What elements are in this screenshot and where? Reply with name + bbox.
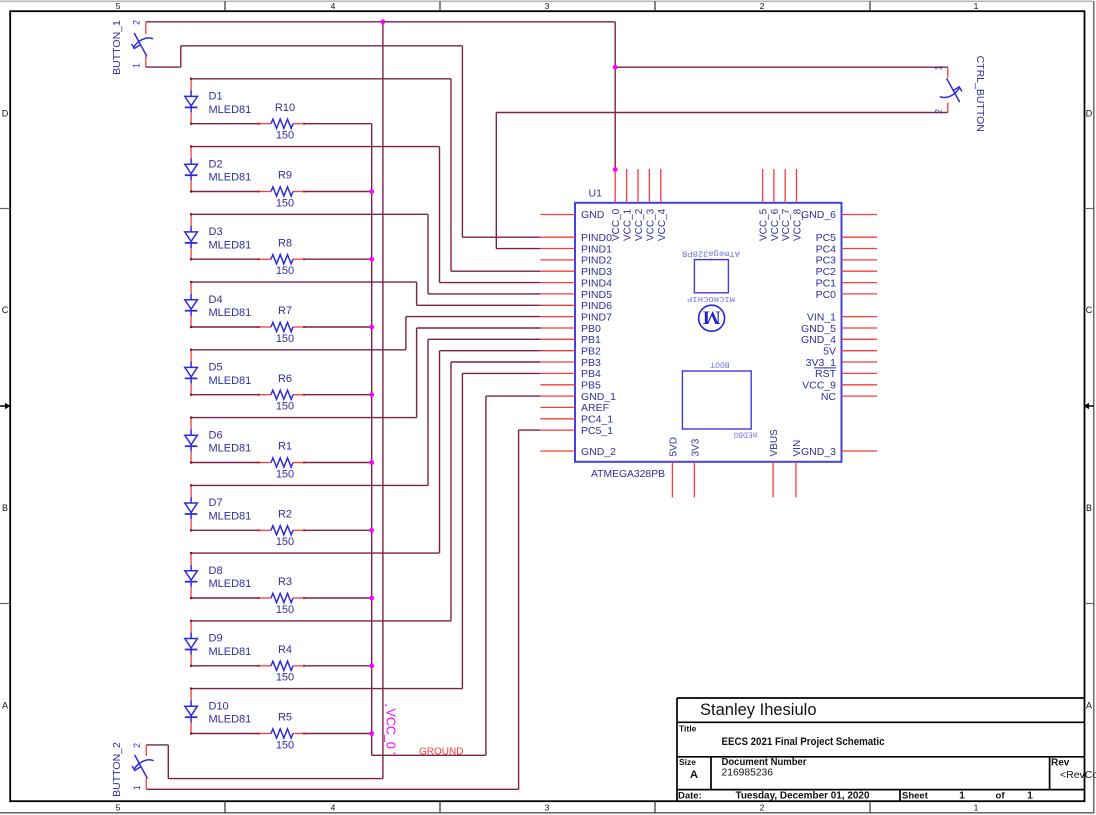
svg-text:1: 1: [1027, 791, 1033, 802]
pin VCC_4 stub (top): [660, 169, 662, 203]
svg-text:MLED81: MLED81: [209, 646, 252, 658]
junction dot ground bus row D2: [369, 189, 374, 194]
wire VCC top rail from BUTTON_1 pin2: [146, 21, 615, 23]
zone tick top x=225: [224, 1, 226, 11]
svg-text:A: A: [690, 769, 698, 781]
diode D5 (MLED81): [185, 350, 198, 394]
svg-text:VCC_9: VCC_9: [802, 380, 836, 392]
switch CTRL_BUTTON: [940, 67, 961, 112]
wire D3 channel vertical: [427, 214, 429, 294]
wire D7 cathode to resistor: [191, 529, 259, 531]
RST overline: [814, 367, 836, 369]
svg-text:R10: R10: [275, 102, 295, 114]
svg-text:2: 2: [132, 20, 142, 25]
junction dot ground bus row D9: [369, 663, 374, 668]
wire into PIND1 pin: [496, 248, 540, 250]
svg-text:BUTTON_1: BUTTON_1: [111, 20, 123, 75]
svg-text:VCC_8: VCC_8: [793, 208, 804, 241]
wire D7 into pin: [428, 338, 540, 340]
wire corner vertex dots row 5: [190, 349, 192, 351]
sheet outer border line top: [0, 0, 1094, 2]
svg-text:mEDBG: mEDBG: [733, 430, 757, 439]
svg-text:GROUND: GROUND: [419, 746, 463, 757]
wire LED D2 anode stub vertical: [190, 146, 192, 149]
svg-text:A: A: [2, 701, 8, 711]
svg-text:U1: U1: [589, 188, 603, 200]
svg-text:of: of: [996, 791, 1006, 802]
svg-text:PIND5: PIND5: [581, 289, 612, 301]
svg-text:PC2: PC2: [816, 266, 837, 278]
wire corner vertex dots row 3: [190, 213, 192, 215]
zone tick right y=208.5: [1085, 208, 1094, 210]
svg-text:AREF: AREF: [581, 402, 609, 414]
svg-text:2: 2: [760, 1, 765, 11]
pin PIND3 stub: [540, 270, 575, 272]
resistor R8 (150): [258, 255, 306, 264]
wire channel drop to PIND0: [461, 46, 463, 237]
zone tick bottom x=655: [654, 801, 656, 813]
pin PB0 stub: [540, 327, 575, 329]
svg-text:VCC_0: VCC_0: [384, 709, 398, 749]
resistor R4 (150): [258, 661, 306, 670]
wire D2 anode rail: [191, 146, 439, 148]
svg-text:D: D: [2, 109, 9, 119]
zone tick bottom x=225: [224, 801, 226, 813]
pin PIND0 stub: [540, 236, 575, 238]
wire D6 channel vertical: [416, 328, 418, 418]
svg-text:BOOT: BOOT: [710, 359, 729, 368]
zone tick top x=870: [869, 1, 871, 11]
svg-text:BUTTON_2: BUTTON_2: [111, 742, 123, 797]
pin PC2 stub: [842, 270, 878, 272]
svg-text:MLED81: MLED81: [209, 511, 252, 523]
resistor R2 (150): [258, 526, 306, 535]
diode D10 (MLED81): [185, 689, 198, 733]
chip inner square (die): [694, 260, 728, 293]
svg-text:VCC_5: VCC_5: [759, 208, 770, 241]
svg-text:1: 1: [132, 63, 142, 68]
svg-text:GND_5: GND_5: [801, 323, 836, 335]
svg-text:5VD: 5VD: [668, 437, 679, 456]
zone tick left y=208.5: [0, 208, 10, 210]
svg-text:PC5: PC5: [816, 232, 837, 244]
svg-text:VCC_4: VCC_4: [657, 208, 668, 241]
svg-text:GND_2: GND_2: [581, 446, 616, 458]
wire LED D5 anode stub vertical: [190, 349, 192, 352]
pin PIND5 stub: [540, 293, 575, 295]
wire D4 into pin: [417, 304, 541, 306]
pin VCC_7 stub (top): [784, 169, 786, 203]
svg-text:PB3: PB3: [581, 357, 601, 369]
wire LED D4 anode stub vertical: [190, 281, 192, 284]
wire D9 cathode to resistor: [191, 665, 259, 667]
svg-text:RST: RST: [815, 368, 837, 380]
wire VCC bus bottom horizontal: [168, 778, 383, 780]
svg-text:D1: D1: [209, 91, 223, 103]
wire resistor row 1 to ground bus: [304, 123, 372, 125]
wire D8 into pin: [440, 350, 541, 352]
svg-text:Title: Title: [679, 724, 697, 734]
resistor R3 (150): [258, 593, 306, 602]
svg-text:VIN: VIN: [792, 440, 803, 457]
wire D3 cathode to resistor: [191, 258, 259, 260]
wire D4 anode rail: [191, 281, 417, 283]
svg-text:MICROCHIP: MICROCHIP: [686, 294, 735, 302]
wire BUTTON_1 pin1 riser: [180, 46, 182, 67]
svg-text:R4: R4: [278, 644, 292, 656]
svg-text:B: B: [1086, 503, 1092, 513]
svg-text:D4: D4: [209, 294, 223, 306]
sheet outer border line bottom: [0, 812, 1094, 814]
pin VCC_2 stub (top): [637, 169, 639, 203]
svg-text:GND_6: GND_6: [801, 209, 836, 221]
wire resistor row 7 to ground bus: [304, 529, 372, 531]
wire resistor row 3 to ground bus: [304, 258, 372, 260]
pin PIND1 stub: [540, 248, 575, 250]
svg-text:PIND3: PIND3: [581, 266, 612, 278]
pin PIND4 stub: [540, 282, 575, 284]
wire BUTTON_1 pin1 to channel: [181, 45, 463, 47]
wire D5 into pin: [406, 316, 541, 318]
pin PB4 stub: [540, 372, 575, 374]
pin VIN stub (bottom): [795, 462, 797, 498]
svg-text:MLED81: MLED81: [209, 307, 252, 319]
svg-text:CTRL_BUTTON: CTRL_BUTTON: [974, 56, 986, 132]
svg-text:150: 150: [276, 333, 294, 345]
wire D2 channel vertical: [439, 147, 441, 283]
svg-text:C: C: [1086, 305, 1093, 315]
svg-text:GND: GND: [581, 209, 605, 221]
svg-text:150: 150: [276, 604, 294, 616]
wire D6 anode rail: [191, 417, 417, 419]
wire GROUND riser to GND_1: [485, 396, 487, 755]
svg-text:PC0: PC0: [816, 289, 837, 301]
pin 5V stub: [842, 350, 878, 352]
pin NC stub: [842, 395, 878, 397]
wire D10 channel vertical: [461, 373, 463, 688]
svg-text:216985236: 216985236: [722, 768, 774, 779]
wire BUTTON_1 pin1 bottom segment: [146, 66, 181, 68]
svg-text:2: 2: [760, 802, 765, 812]
svg-text:PB2: PB2: [581, 346, 601, 358]
svg-text:PB0: PB0: [581, 323, 601, 335]
svg-text:R9: R9: [278, 170, 292, 182]
zone tick top x=440: [439, 1, 441, 11]
svg-text:1: 1: [959, 791, 965, 802]
svg-text:VCC_7: VCC_7: [781, 208, 792, 241]
svg-text:MLED81: MLED81: [209, 375, 252, 387]
svg-text:150: 150: [276, 739, 294, 751]
svg-text:2: 2: [934, 109, 944, 114]
svg-text:ATmega328PB: ATmega328PB: [682, 249, 740, 258]
svg-text:D6: D6: [209, 429, 223, 441]
wire corner vertex dots row 8: [190, 552, 192, 554]
pin PB1 stub: [540, 338, 575, 340]
svg-text:D5: D5: [209, 362, 223, 374]
zone tick top x=655: [654, 1, 656, 11]
svg-text:B: B: [2, 503, 8, 513]
resistor R5 (150): [258, 729, 306, 738]
wire D9 anode rail: [191, 620, 451, 622]
svg-text:PIND2: PIND2: [581, 255, 612, 267]
wire resistor row 5 to ground bus: [304, 394, 372, 396]
switch BUTTON_2: [132, 745, 153, 789]
wire D1 channel vertical: [450, 79, 452, 271]
svg-text:1: 1: [132, 785, 142, 790]
zone tick bottom x=870: [869, 801, 871, 813]
junction dot VCC_0 pin connection: [613, 167, 618, 172]
svg-text:MLED81: MLED81: [209, 443, 252, 455]
svg-text:4: 4: [331, 1, 336, 11]
svg-text:D3: D3: [209, 226, 223, 238]
wire D8 cathode to resistor: [191, 597, 259, 599]
svg-text:EECS 2021 Final Project Schema: EECS 2021 Final Project Schematic: [722, 736, 885, 748]
wire VCC bus vertical: [382, 22, 384, 779]
pin PC0 stub: [842, 293, 878, 295]
resistor R10 (150): [258, 119, 306, 128]
wire D3 anode rail: [191, 213, 428, 215]
pin PC1 stub: [842, 282, 878, 284]
svg-text:D8: D8: [209, 565, 223, 577]
wire D4 channel vertical: [416, 282, 418, 305]
wire channel drop to PIND1: [495, 113, 497, 249]
wire D9 channel vertical: [450, 362, 452, 621]
pin VCC_1 stub (top): [626, 169, 628, 203]
pin 3V3_1 stub: [842, 361, 878, 363]
wire resistor row 2 to ground bus: [304, 191, 372, 193]
junction dot VCC bus top: [381, 19, 386, 24]
switch BUTTON_1: [132, 22, 153, 67]
svg-text:VIN_1: VIN_1: [807, 311, 836, 323]
pin VCC_5 stub (top): [762, 169, 764, 203]
svg-text:R5: R5: [278, 712, 292, 724]
svg-text:3V3_1: 3V3_1: [806, 357, 837, 369]
wire D10 cathode to resistor: [191, 733, 259, 735]
wire corner vertex dots row 4: [190, 281, 192, 283]
svg-text:D7: D7: [209, 497, 223, 509]
svg-text:D2: D2: [209, 158, 223, 170]
pin PIND2 stub: [540, 259, 575, 261]
wire corner vertex dots row 6: [190, 417, 192, 419]
wire VCC branch to CTRL_BUTTON pin1: [615, 66, 948, 68]
svg-text:5: 5: [116, 1, 121, 11]
wire VCC riser to BUTTON_2 pin2: [167, 745, 169, 779]
resistor R9 (150): [258, 187, 306, 196]
svg-text:R2: R2: [278, 509, 292, 521]
svg-text:D9: D9: [209, 633, 223, 645]
diode D9 (MLED81): [185, 622, 198, 666]
wire D2 into pin: [440, 282, 541, 284]
junction dot ground bus row D3: [369, 257, 374, 262]
pin PC4_1 stub: [540, 418, 575, 420]
wire LED D6 anode stub vertical: [190, 417, 192, 420]
wire corner vertex dots row 7: [190, 484, 192, 486]
junction dot ground bus row D6: [369, 460, 374, 465]
svg-text:GND_1: GND_1: [581, 391, 616, 403]
svg-text:Date:: Date:: [678, 791, 702, 802]
junction dot VCC branch to CTRL_BUTTON: [613, 65, 618, 70]
svg-text:150: 150: [276, 197, 294, 209]
microchip logo circle: [699, 305, 725, 331]
wire D5 channel vertical: [405, 317, 407, 350]
wire LED D10 anode stub vertical: [190, 688, 192, 691]
wire D6 into pin: [417, 327, 541, 329]
svg-text:GND_3: GND_3: [801, 446, 836, 458]
wire resistor row 9 to ground bus: [304, 665, 372, 667]
svg-text:150: 150: [276, 672, 294, 684]
svg-text:VCC_3: VCC_3: [645, 208, 656, 241]
svg-text:D: D: [1086, 109, 1093, 119]
wire corner vertex dots row 2: [190, 146, 192, 148]
pin PC4 stub: [842, 248, 878, 250]
wire resistor row 6 to ground bus: [304, 462, 372, 464]
wire D7 channel vertical: [427, 339, 429, 485]
svg-text:VCC_2: VCC_2: [634, 208, 645, 241]
wire resistor row 4 to ground bus: [304, 326, 372, 328]
diode D2 (MLED81): [185, 147, 198, 191]
svg-text:PB5: PB5: [581, 380, 601, 392]
svg-text:Tuesday, December 01, 2020: Tuesday, December 01, 2020: [736, 790, 870, 801]
svg-text:PC3: PC3: [816, 255, 837, 267]
pin PIND6 stub: [540, 304, 575, 306]
center arrow right: [1084, 403, 1094, 409]
diode D3 (MLED81): [185, 215, 198, 259]
svg-text:VBUS: VBUS: [769, 429, 780, 457]
pin VIN_1 stub: [842, 316, 878, 318]
pin PC5 stub: [842, 236, 878, 238]
wire corner vertex dots row 1: [190, 78, 192, 80]
svg-text:VCC_1: VCC_1: [623, 208, 634, 241]
zone tick right y=603.5: [1085, 603, 1094, 605]
svg-text:M: M: [703, 307, 721, 328]
diode D1 (MLED81): [185, 79, 198, 123]
svg-text:PIND7: PIND7: [581, 311, 612, 323]
resistor R6 (150): [258, 390, 306, 399]
pin 3V3 stub (bottom): [693, 462, 695, 498]
sheet outer border line right: [1093, 1, 1095, 813]
resistor R1 (150): [258, 458, 306, 467]
junction dot ground bus row D7: [369, 528, 374, 533]
pin GND_6 stub: [842, 214, 878, 216]
svg-text:PIND4: PIND4: [581, 277, 612, 289]
pin VCC_3 stub (top): [648, 169, 650, 203]
pin 5VD stub (bottom): [671, 462, 673, 498]
wire LED D8 anode stub vertical: [190, 552, 192, 555]
zone tick left y=603.5: [0, 603, 10, 605]
wire D9 into pin: [451, 361, 540, 363]
wire into GND_1 pin: [486, 395, 541, 397]
zone tick bottom x=440: [439, 801, 441, 813]
svg-text:3V3: 3V3: [690, 438, 701, 456]
svg-text:R3: R3: [278, 576, 292, 588]
pin GND_2 stub: [540, 450, 575, 452]
pin VCC_9 stub: [842, 384, 878, 386]
wire D1 cathode to resistor: [191, 123, 259, 125]
svg-text:150: 150: [276, 130, 294, 142]
svg-text:PB1: PB1: [581, 334, 601, 346]
wire D10 into pin: [462, 372, 540, 374]
wire D1 into pin: [451, 270, 540, 272]
svg-text:PC4_1: PC4_1: [581, 414, 613, 426]
svg-text:3: 3: [545, 802, 550, 812]
svg-text:Document Number: Document Number: [722, 757, 807, 768]
junction dot ground bus row D5: [369, 392, 374, 397]
svg-text:Stanley Ihesiulo: Stanley Ihesiulo: [700, 701, 817, 719]
svg-text:GND_4: GND_4: [801, 334, 836, 346]
svg-text:PC5_1: PC5_1: [581, 425, 613, 437]
svg-text:Size: Size: [679, 757, 696, 767]
wire CTRL_BUTTON pin2 horizontal: [496, 112, 948, 114]
svg-text:MLED81: MLED81: [209, 578, 252, 590]
svg-text:150: 150: [276, 468, 294, 480]
wire D5 anode rail: [191, 349, 406, 351]
pin PB2 stub: [540, 350, 575, 352]
wire GROUND bus bottom horizontal: [372, 754, 486, 756]
wire D10 anode rail: [191, 688, 462, 690]
diode D6 (MLED81): [185, 418, 198, 462]
svg-text:1: 1: [974, 802, 979, 812]
svg-text:Sheet: Sheet: [902, 791, 929, 802]
wire LED D9 anode stub vertical: [190, 620, 192, 623]
pin VCC_8 stub (top): [796, 169, 798, 203]
pin VCC_6 stub (top): [773, 169, 775, 203]
wire D7 anode rail: [191, 484, 428, 486]
svg-text:A: A: [1086, 701, 1092, 711]
wire D3 into pin: [428, 293, 540, 295]
pin PC3 stub: [842, 259, 878, 261]
svg-text:150: 150: [276, 265, 294, 277]
wire D4 cathode to resistor: [191, 326, 259, 328]
svg-text:5V: 5V: [823, 346, 836, 358]
svg-text:MLED81: MLED81: [209, 104, 252, 116]
pin GND_1 stub: [540, 395, 575, 397]
wire D8 channel vertical: [439, 351, 441, 553]
svg-text:ATMEGA328PB: ATMEGA328PB: [591, 468, 665, 480]
wire D5 cathode to resistor: [191, 394, 259, 396]
diode D7 (MLED81): [185, 486, 198, 530]
svg-text:D10: D10: [209, 700, 229, 712]
svg-text:PC4: PC4: [816, 243, 837, 255]
wire into PC5_1 pin: [519, 429, 541, 431]
svg-text:VCC_6: VCC_6: [770, 208, 781, 241]
svg-text:PB4: PB4: [581, 368, 601, 380]
svg-text:150: 150: [276, 536, 294, 548]
chip inner square (boot region): [682, 371, 751, 429]
svg-text:PIND0: PIND0: [581, 232, 612, 244]
wire GROUND bus vertical: [371, 124, 373, 756]
wire into PIND0 pin: [462, 236, 540, 238]
pin RST stub: [842, 372, 878, 374]
net label VCC_0 tick marks: [385, 705, 387, 707]
wire corner vertex dots row 9: [190, 620, 192, 622]
pin GND_3 stub: [842, 450, 878, 452]
svg-text:VCC_0: VCC_0: [611, 208, 622, 241]
pin AREF stub: [540, 406, 575, 408]
pin VCC_0 stub (top): [614, 169, 616, 203]
resistor R7 (150): [258, 322, 306, 331]
svg-text:MLED81: MLED81: [209, 714, 252, 726]
title block outline: [677, 698, 1085, 801]
svg-text:NC: NC: [821, 391, 837, 403]
svg-text:C: C: [2, 305, 9, 315]
svg-text:3: 3: [545, 1, 550, 11]
pin GND_5 stub: [842, 327, 878, 329]
junction dot ground bus row D4: [369, 325, 374, 330]
wire D6 cathode to resistor: [191, 462, 259, 464]
svg-text:MLED81: MLED81: [209, 239, 252, 251]
op-amp U1 body rectangle (ATMEGA328PB): [575, 203, 842, 462]
svg-text:5: 5: [116, 802, 121, 812]
